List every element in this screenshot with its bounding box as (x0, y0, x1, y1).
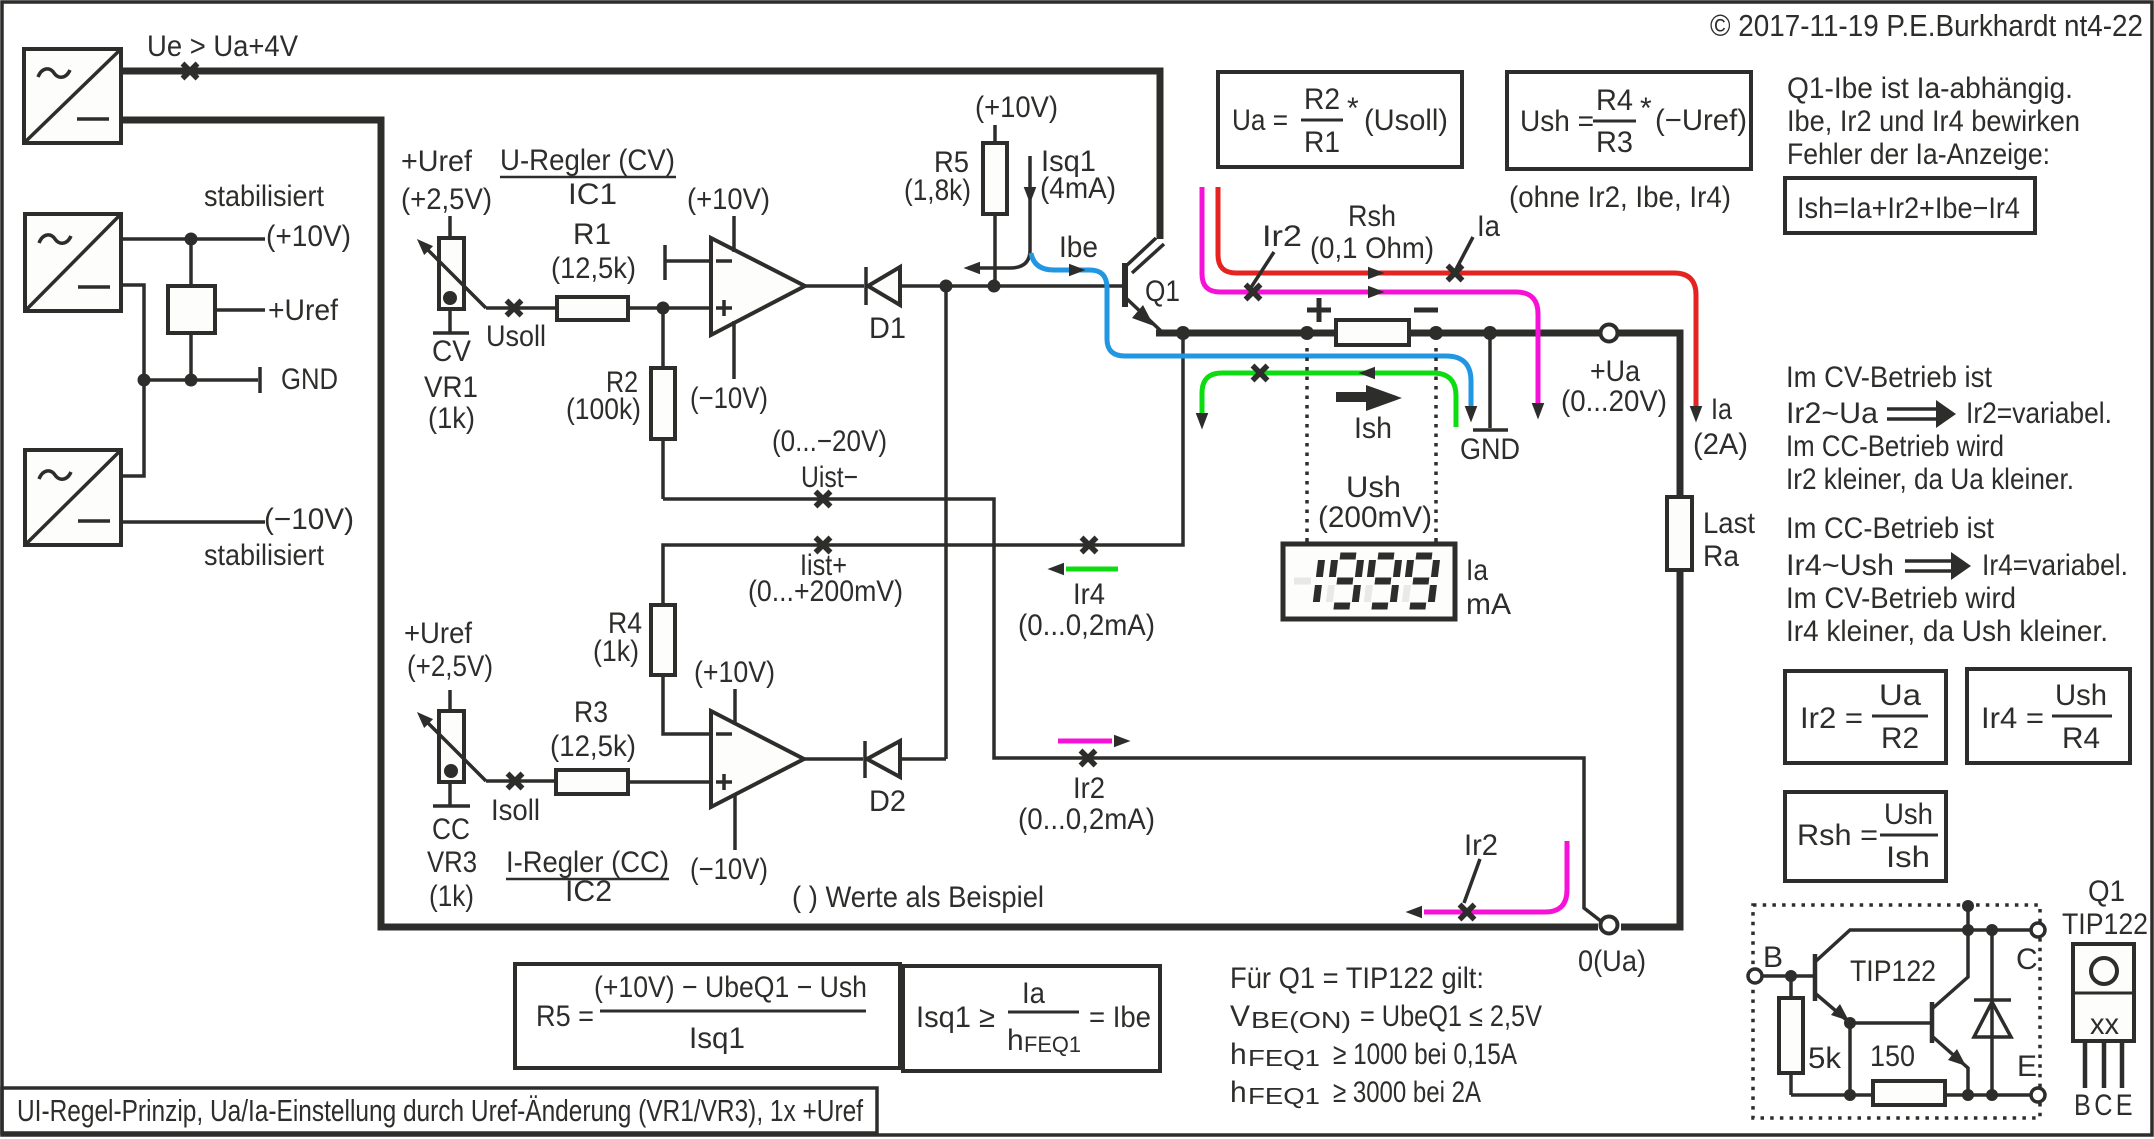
magenta arrow down (1532, 403, 1545, 420)
svg-text:Ir2~Ua: Ir2~Ua (1786, 397, 1878, 430)
thick wire top rail Ue to Q1 collector (121, 71, 1160, 239)
Q1 collector double line (1126, 238, 1164, 273)
node collector line 2 (1986, 924, 1998, 936)
node shunt left (1300, 326, 1314, 340)
VR1 top wire (448, 216, 452, 238)
svg-text:Fehler der Ia-Anzeige:: Fehler der Ia-Anzeige: (1787, 138, 2050, 171)
wire Usoll (486, 306, 557, 310)
svg-text:(0...−20V): (0...−20V) (772, 425, 887, 458)
svg-text:(+10V): (+10V) (975, 91, 1058, 124)
svg-text:stabilisiert: stabilisiert (204, 180, 325, 213)
blue Ibe arrow down at GND (1465, 406, 1478, 423)
top stub to dotted border (1966, 906, 1970, 930)
svg-text:R2: R2 (1304, 83, 1340, 116)
svg-text:Im CV-Betrieb ist: Im CV-Betrieb ist (1786, 361, 1993, 394)
Isq1 arrow down (1024, 187, 1037, 204)
svg-text:(−10V): (−10V) (264, 503, 354, 536)
resistor R1 (557, 297, 628, 320)
svg-text:V: V (1230, 1000, 1250, 1033)
svg-text:FEQ1: FEQ1 (1248, 1083, 1320, 1109)
display digit 9 (b) (1367, 556, 1399, 606)
wire R2 bottom to Uist line (661, 439, 665, 499)
red wire Ia annotation (1218, 187, 1696, 412)
svg-text:(2A): (2A) (1693, 428, 1748, 461)
svg-text:Ir2 =: Ir2 = (1800, 702, 1863, 735)
GND bar (1473, 428, 1508, 432)
thick output rail (1156, 330, 1600, 337)
svg-text:VR3: VR3 (427, 846, 477, 879)
IC1 output wire (805, 284, 864, 288)
node emitter rail 3 (1986, 1089, 1998, 1101)
formula box Rsh (1785, 792, 1946, 881)
wire R1 to IC1 plus input (628, 306, 711, 310)
svg-text:Ir2: Ir2 (1464, 829, 1498, 862)
svg-text:Ush: Ush (1346, 471, 1401, 504)
IC1 +10V supply wire (732, 216, 736, 252)
svg-text:TIP122: TIP122 (1850, 955, 1936, 988)
svg-text:TIP122: TIP122 (2062, 908, 2148, 941)
IC1 inverting input stub (666, 259, 711, 263)
wire D1 to Q1 base (900, 284, 1122, 288)
svg-text:Q1: Q1 (2088, 875, 2125, 908)
formula box Isq1 (903, 966, 1160, 1071)
svg-text:(−Uref): (−Uref) (1655, 104, 1747, 137)
X mark magenta bottom (1460, 905, 1475, 920)
Uref reference box (168, 286, 215, 333)
svg-text:(+2,5V): (+2,5V) (401, 183, 492, 216)
op-amp IC1 (711, 238, 805, 335)
svg-text:+Uref: +Uref (401, 145, 473, 178)
svg-text:R2: R2 (1881, 722, 1919, 755)
VR3 bottom wire (448, 782, 452, 805)
formula box Ir2 (1785, 671, 1946, 763)
dotted measure line right (1434, 348, 1438, 542)
svg-text:Ir2=variabel.: Ir2=variabel. (1966, 397, 2112, 430)
svg-text:Last: Last (1703, 507, 1756, 540)
svg-text:(100k): (100k) (566, 393, 641, 426)
wire +10V rail from box2 (121, 237, 265, 241)
AC/DC converter box 1 (input supply) (24, 49, 121, 143)
wire uref box bottom to GND node (189, 333, 193, 380)
diode triangle (1974, 1002, 2011, 1037)
Isq1 arrow left (964, 262, 981, 275)
svg-text:UI-Regel-Prinzip, Ua/Ia-Einste: UI-Regel-Prinzip, Ua/Ia-Einstellung durc… (17, 1093, 863, 1128)
X mark on top rail (183, 64, 198, 79)
wired-or vertical D2 to D1 (944, 286, 948, 759)
diode bar (1974, 998, 2011, 1002)
svg-text:Ir4~Ush: Ir4~Ush (1786, 549, 1894, 582)
VR1 wiper diagonal (424, 246, 486, 308)
bottom rail internal (1791, 1093, 2031, 1097)
svg-text:R3: R3 (1596, 126, 1633, 159)
thick wire output rail after 0(Ua) to Last Ra (1621, 570, 1680, 927)
svg-text:Ia: Ia (1711, 393, 1732, 426)
title box (2, 1088, 877, 1133)
svg-text:0(Ua): 0(Ua) (1578, 945, 1646, 978)
wire Uist- sense (R2 to output 0(Ua)) (663, 499, 1602, 922)
svg-text:150: 150 (1870, 1040, 1915, 1073)
Ia pointer line (1452, 237, 1473, 277)
thick wire +Ua rail right portion (1618, 333, 1680, 497)
svg-text:Q1-Ibe ist Ia-abhängig.: Q1-Ibe ist Ia-abhängig. (1787, 72, 2073, 105)
svg-text:Im CC-Betrieb ist: Im CC-Betrieb ist (1786, 512, 1995, 545)
svg-text:(0,1 Ohm): (0,1 Ohm) (1310, 232, 1434, 265)
potentiometer VR1 body (439, 238, 464, 309)
svg-text:*: * (1640, 92, 1652, 125)
IC2 +10V supply wire (733, 689, 737, 725)
wire Iist+ sense (R4 to shunt left) (663, 333, 1183, 605)
Q1 emitter wire (1127, 299, 1161, 331)
diode D1 triangle (868, 267, 900, 305)
svg-text:E: E (2017, 1050, 2037, 1083)
magenta wire Ir2 annotation top (1202, 187, 1538, 409)
svg-text:(12,5k): (12,5k) (551, 252, 636, 285)
package legs (2085, 1041, 2122, 1088)
svg-text:R4: R4 (2062, 722, 2100, 755)
svg-text:mA: mA (1466, 588, 1511, 621)
svg-text:R4: R4 (1596, 84, 1633, 117)
wire +Uref out (215, 308, 265, 312)
VR3 bottom terminal bar (433, 804, 470, 808)
svg-text:Ir2: Ir2 (1262, 220, 1302, 253)
svg-text:(+10V): (+10V) (694, 656, 775, 689)
IC1 inverting stub terminal bar (663, 245, 667, 280)
magenta bottom arrow left (1406, 906, 1423, 919)
svg-text:Ir4: Ir4 (1073, 578, 1105, 611)
wire R5 top (993, 125, 997, 143)
svg-text:+Ua: +Ua (1590, 355, 1640, 388)
IC1 plus glyph (716, 300, 732, 316)
diode wire (1990, 930, 1994, 1095)
X mark on red (1448, 266, 1463, 281)
svg-text:h: h (1007, 1024, 1024, 1057)
node on +10V wire (185, 233, 198, 246)
svg-text:(1k): (1k) (429, 880, 474, 913)
svg-text:D2: D2 (869, 785, 906, 818)
blue Ibe arrow mid (1069, 264, 1086, 277)
minus sign shunt (1414, 308, 1438, 313)
display ghost minus (1294, 578, 1311, 585)
IC1 minus glyph (716, 259, 732, 263)
wire box2 minus to GND bus (121, 285, 144, 476)
magenta short arrow (1114, 735, 1131, 748)
svg-text:(200mV): (200mV) (1318, 501, 1432, 534)
svg-text:h: h (1230, 1076, 1247, 1109)
wire T1e to T2 base (1850, 1021, 1932, 1025)
svg-text:BCE: BCE (2074, 1089, 2136, 1122)
VR1 wiper arrow (412, 234, 433, 255)
svg-text:R1: R1 (573, 218, 611, 251)
VR3 wiper dot (444, 764, 458, 778)
thick wire return rail (box1 minus, down left side, along bottom to 0(Ua)) (121, 120, 1598, 927)
magenta wire Ir2 bottom annotation (1424, 841, 1567, 912)
svg-text:Im CC-Betrieb wird: Im CC-Betrieb wird (1786, 430, 2004, 463)
display digit 1 (1316, 560, 1321, 602)
wire B to T1 base (1762, 974, 1815, 978)
svg-text:IC1: IC1 (568, 178, 617, 211)
X mark Iist+ right (1082, 538, 1097, 553)
svg-text:FEQ1: FEQ1 (1024, 1032, 1081, 1057)
svg-text:(+2,5V): (+2,5V) (407, 650, 493, 683)
T1 base bar (1813, 954, 1818, 1001)
svg-text:(1k): (1k) (593, 635, 639, 668)
svg-text:Im CV-Betrieb wird: Im CV-Betrieb wird (1786, 582, 2016, 615)
X mark Usoll (507, 301, 522, 316)
node GND bus 1 (138, 374, 151, 387)
svg-text:Isq1 ≥: Isq1 ≥ (916, 1001, 995, 1034)
node GND bus 2 (185, 374, 198, 387)
svg-text:Isoll: Isoll (491, 794, 540, 827)
svg-text:Ir4 kleiner, da Ush kleiner.: Ir4 kleiner, da Ush kleiner. (1786, 615, 2108, 648)
svg-text:U-Regler (CV): U-Regler (CV) (500, 144, 675, 177)
svg-text:Ush: Ush (1884, 798, 1933, 831)
svg-text:(1,8k): (1,8k) (904, 174, 971, 207)
svg-text:Rsh =: Rsh = (1797, 819, 1878, 852)
dotted measure line left (1305, 348, 1309, 542)
svg-text:GND: GND (281, 363, 338, 396)
formula box Ir4 (1967, 669, 2130, 763)
green arrow down (1196, 413, 1209, 430)
VR1 bottom terminal bar (433, 331, 469, 335)
GND stub wire (1488, 333, 1492, 428)
svg-text:Ia: Ia (1466, 554, 1488, 587)
wire R4 bottom to IC2 minus (663, 675, 711, 734)
svg-text:Ush =: Ush = (1520, 105, 1594, 138)
svg-text:Ue > Ua+4V: Ue > Ua+4V (147, 30, 298, 63)
wire -10V out of box3 (121, 520, 265, 524)
svg-text:Rsh: Rsh (1348, 200, 1396, 233)
diode D2 triangle (867, 741, 900, 777)
svg-text:≥ 1000 bei 0,15A: ≥ 1000 bei 0,15A (1333, 1038, 1517, 1071)
svg-text:(+10V) − UbeQ1 − Ush: (+10V) − UbeQ1 − Ush (594, 971, 867, 1004)
wire T1e down (1848, 1023, 1852, 1095)
green short Ir4 segment (1066, 567, 1118, 572)
node R1/R2 junction (657, 302, 670, 315)
terminal C open circle (2031, 923, 2045, 937)
VR3 wiper diagonal (424, 719, 486, 781)
svg-text:Ir2: Ir2 (1073, 772, 1105, 805)
svg-text:Für Q1 = TIP122 gilt:: Für Q1 = TIP122 gilt: (1230, 962, 1484, 995)
package hole (2091, 958, 2117, 984)
node emitter junction (1176, 326, 1190, 340)
resistor R2 (651, 368, 675, 439)
dotted box (1753, 905, 2040, 1118)
T2 base bar (1930, 1002, 1935, 1043)
svg-text:Ish=Ia+Ir2+Ibe−Ir4: Ish=Ia+Ir2+Ibe−Ir4 (1797, 192, 2020, 225)
T1 collector (1816, 930, 2031, 961)
svg-text:(0...20V): (0...20V) (1561, 385, 1667, 418)
VR1 wiper dot (443, 291, 457, 305)
IC2 -10V supply wire (733, 794, 737, 850)
node R5/base (988, 280, 1001, 293)
green arrow left mid (1359, 367, 1376, 380)
VR3 top wire (448, 690, 452, 711)
svg-text:R3: R3 (574, 696, 608, 729)
diode D1 cathode bar (864, 267, 868, 305)
X mark on green (1253, 366, 1268, 381)
svg-text:(−10V): (−10V) (690, 382, 768, 415)
X mark Iist+ left (816, 538, 831, 553)
node emitter rail 1 (1844, 1089, 1856, 1101)
Ir2 bottom pointer line (1464, 859, 1480, 903)
VR1 bottom wire (448, 309, 452, 332)
display digit 9 (c) (1405, 556, 1437, 606)
terminal 0(Ua) open circle (1601, 917, 1618, 934)
node B junction (1785, 970, 1797, 982)
T2 emitter arrow (1948, 1049, 1966, 1066)
svg-text:+Uref: +Uref (404, 617, 473, 650)
svg-text:Ia: Ia (1022, 977, 1045, 1010)
svg-text:(0...+200mV): (0...+200mV) (748, 575, 903, 608)
svg-text:(4mA): (4mA) (1040, 172, 1116, 205)
svg-text:(ohne Ir2, Ibe, Ir4): (ohne Ir2, Ibe, Ir4) (1509, 181, 1731, 214)
svg-text:(0...0,2mA): (0...0,2mA) (1018, 803, 1155, 836)
svg-text:= Ibe: = Ibe (1089, 1001, 1151, 1034)
svg-text:Usoll: Usoll (486, 320, 546, 353)
svg-text:B: B (1763, 941, 1783, 974)
Ish big arrow (1336, 392, 1367, 402)
red arrow down (1690, 406, 1703, 423)
potentiometer VR3 body (439, 711, 464, 782)
X mark Uist- (816, 492, 831, 507)
svg-text:D1: D1 (869, 312, 906, 345)
wire R2 top (661, 308, 665, 368)
svg-text:Ir4=variabel.: Ir4=variabel. (1982, 549, 2128, 582)
resistor 5k (1779, 998, 1803, 1073)
display meter body (1283, 544, 1455, 619)
AC/DC converter box 3 (-10V supply) (25, 450, 121, 545)
X mark Ir2 sense line (1081, 751, 1096, 766)
IC2 minus glyph (716, 732, 732, 736)
Ir2 pointer line (1250, 252, 1274, 289)
svg-text:(+10V): (+10V) (687, 183, 770, 216)
T2 collector (1933, 930, 1968, 1008)
VR3 wiper arrow (412, 707, 433, 728)
svg-text:h: h (1230, 1038, 1247, 1071)
svg-text:(0...0,2mA): (0...0,2mA) (1018, 609, 1155, 642)
svg-text:5k: 5k (1808, 1042, 1842, 1075)
op-amp IC2 (711, 711, 804, 807)
svg-text:Ir4 =: Ir4 = (1981, 702, 2044, 735)
transistor Q1 base bar (1122, 263, 1128, 307)
svg-text:Ush: Ush (2055, 679, 2107, 712)
svg-text:FEQ1: FEQ1 (1248, 1045, 1320, 1071)
terminal B open circle (1748, 969, 1762, 983)
formula box Ush (1507, 72, 1751, 169)
IC1 -10V supply wire (732, 321, 736, 379)
svg-text:xx: xx (2090, 1008, 2119, 1041)
svg-text:Ir2 kleiner, da Ua kleiner.: Ir2 kleiner, da Ua kleiner. (1786, 463, 2074, 496)
node emitter rail 2 (1962, 1089, 1974, 1101)
package body (2073, 944, 2134, 1041)
svg-text:Ish: Ish (1354, 412, 1392, 445)
svg-text:(12,5k): (12,5k) (550, 730, 636, 763)
IC2 plus glyph (716, 774, 732, 790)
svg-text:C: C (2016, 943, 2038, 976)
svg-text:R5 =: R5 = (536, 1000, 594, 1033)
wire Isoll (486, 779, 556, 783)
X mark Isoll (508, 774, 523, 789)
wire 5k bottom (1789, 1073, 1793, 1095)
terminal +Ua open circle (1601, 325, 1618, 342)
svg-text:CV: CV (432, 335, 471, 368)
svg-text:Ibe, Ir2 und Ir4 bewirken: Ibe, Ir2 und Ir4 bewirken (1787, 105, 2080, 138)
node shunt right (1429, 326, 1443, 340)
wire 5k top (1789, 976, 1793, 998)
svg-text:Ua: Ua (1879, 679, 1921, 712)
svg-text:( ) Werte als Beispiel: ( ) Werte als Beispiel (792, 881, 1044, 914)
wire D2 to wired-or (900, 757, 946, 761)
svg-text:(Usoll): (Usoll) (1364, 104, 1448, 137)
T1 emitter arrow (1831, 1004, 1849, 1021)
resistor R4 (651, 605, 675, 675)
resistor R5 (983, 143, 1007, 214)
formula box R5 (515, 964, 900, 1068)
svg-text:(1k): (1k) (428, 402, 475, 435)
plus sign shunt (1307, 298, 1331, 322)
display digit 9 (a) (1329, 556, 1361, 606)
resistor Last Ra (1667, 497, 1692, 570)
svg-text:Isq1: Isq1 (689, 1022, 745, 1055)
wire uref box top (189, 239, 193, 286)
diode D2 cathode bar (863, 741, 867, 778)
svg-text:R1: R1 (1304, 126, 1340, 159)
node D1/D2 wired-or (940, 280, 953, 293)
svg-text:BE(ON): BE(ON) (1251, 1007, 1351, 1033)
svg-text:Ish: Ish (1886, 841, 1930, 874)
svg-text:© 2017-11-19 P.E.Burkhardt nt4: © 2017-11-19 P.E.Burkhardt nt4-22 (1710, 8, 2143, 43)
red arrow mid (1368, 267, 1385, 280)
svg-text:Ia: Ia (1477, 210, 1500, 243)
svg-text:Ua =: Ua = (1232, 104, 1288, 137)
formula box Ua (1218, 72, 1462, 167)
node top border (1962, 900, 1974, 912)
svg-text:stabilisiert: stabilisiert (204, 539, 325, 572)
resistor R3 (556, 770, 628, 794)
IC2 output wire (804, 757, 863, 761)
blue wire Ibe path (1031, 253, 1471, 412)
svg-text:Q1: Q1 (1145, 275, 1180, 308)
wire R5 bottom to base node (993, 214, 997, 286)
magenta arrow mid (1368, 286, 1385, 299)
svg-text:(+10V): (+10V) (266, 220, 351, 253)
svg-text:≥ 3000 bei 2A: ≥ 3000 bei 2A (1333, 1076, 1481, 1109)
node collector line 1 (1962, 924, 1974, 936)
Isq1 annotation line (968, 156, 1030, 268)
T1 emitter (1816, 994, 1850, 1023)
svg-text:GND: GND (1460, 433, 1520, 466)
svg-text:Ibe: Ibe (1059, 231, 1098, 264)
shunt resistor Rsh (1336, 320, 1409, 345)
svg-text:Uist−: Uist− (801, 461, 858, 494)
svg-text:IC2: IC2 (565, 875, 612, 908)
terminal E open circle (2031, 1088, 2045, 1102)
svg-text:*: * (1347, 92, 1359, 125)
green short arrow (1048, 563, 1065, 576)
package divider (2073, 992, 2134, 995)
svg-text:+Uref: +Uref (268, 294, 339, 327)
AC/DC converter box 2 (+10V supply) (25, 214, 121, 311)
svg-text:(−10V): (−10V) (690, 853, 768, 886)
formula box Ish sum (1785, 178, 2035, 233)
wire R3 to IC2 plus (628, 780, 711, 784)
X mark on magenta (1246, 285, 1261, 300)
svg-text:CC: CC (432, 813, 470, 846)
GND terminal bar (258, 367, 262, 393)
T2 emitter (1933, 1037, 1968, 1095)
resistor 150 (1873, 1081, 1945, 1105)
svg-text:VR1: VR1 (424, 371, 478, 404)
